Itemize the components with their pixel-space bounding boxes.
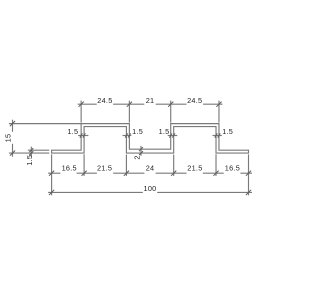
wall thickness dim line ridge1 right wall bbox=[123, 135, 132, 137]
tick left 15 dim lower bbox=[10, 151, 15, 156]
tick wall dim ridge2 left inner bbox=[172, 133, 175, 137]
svg-text:16.5: 16.5 bbox=[225, 164, 240, 173]
tick bottom dim 1 at x=126.42 bbox=[124, 171, 129, 176]
wall thickness dim line ridge2 left wall bbox=[168, 135, 178, 137]
bottom dimension line 1 segment 5 bbox=[203, 172, 224, 174]
svg-text:1.5: 1.5 bbox=[132, 127, 143, 136]
svg-text:24: 24 bbox=[146, 164, 155, 173]
extension line top dim at ridge1 outer-left x=81.14 bbox=[80, 101, 82, 123]
tick bottom dim 1 at x=248.5 bbox=[246, 171, 251, 176]
tick top dim at x=129.38 (ridge1 outer-right) bbox=[127, 102, 132, 107]
bottom dimension line 1 segment 4 bbox=[156, 172, 187, 174]
tick wall dim ridge1 right outer bbox=[125, 133, 128, 137]
bottom dimension line 1 segment 3 bbox=[113, 172, 144, 174]
svg-text:21: 21 bbox=[146, 96, 155, 105]
bottom dimension line 1 segment 6 bbox=[240, 172, 252, 174]
extension line top dim at ridge2 outer-right x=218.97 bbox=[218, 101, 220, 123]
left 15-dim extension line (ridge top) bbox=[9, 123, 81, 125]
svg-text:1.5: 1.5 bbox=[222, 127, 233, 136]
left 1.5 dimension line (vertical) bbox=[30, 147, 32, 157]
svg-text:21.5: 21.5 bbox=[97, 164, 112, 173]
bottom extension line at left end (shared) bbox=[51, 154, 53, 195]
tick bottom dim 2 right bbox=[246, 190, 251, 195]
tick left 1.5 dim upper bbox=[29, 148, 33, 152]
left 1.5-dim extension line (flange top) bbox=[28, 149, 50, 151]
bottom extension line at x=173.68 bbox=[173, 155, 175, 176]
left 15-dim extension line (flange bottom) bbox=[9, 152, 49, 154]
extension line top dim at ridge1 outer-right x=129.38 bbox=[128, 101, 130, 123]
svg-text:2: 2 bbox=[132, 155, 141, 159]
bottom dimension line 1 segment 1 bbox=[48, 172, 60, 174]
top dimension line segment 4 bbox=[203, 103, 222, 105]
tick bottom dim 1 at x=216.01 bbox=[213, 171, 218, 176]
bottom dimension line 1 segment 2 bbox=[77, 172, 97, 174]
svg-text:24.5: 24.5 bbox=[97, 96, 112, 105]
tick bottom dim 1 at x=173.68 bbox=[171, 171, 176, 176]
tick top dim at x=81.14 (ridge1 outer-left) bbox=[79, 102, 84, 107]
web thickness dim line (vertical) bbox=[140, 146, 142, 156]
svg-text:16.5: 16.5 bbox=[62, 164, 77, 173]
tick bottom dim 1 at x=84.09 bbox=[81, 171, 86, 176]
tick top dim at x=170.72 (ridge2 outer-left) bbox=[168, 102, 173, 107]
tick bottom dim 1 at x=51.6 bbox=[49, 171, 54, 176]
tick wall dim ridge1 right inner bbox=[128, 133, 131, 137]
bottom extension line at x=216.01 bbox=[215, 154, 217, 176]
tick top dim at x=218.97 (ridge2 outer-right) bbox=[216, 102, 221, 107]
bottom extension line at x=126.42 bbox=[125, 155, 127, 176]
tick wall dim ridge2 right inner bbox=[218, 133, 221, 137]
svg-text:24.5: 24.5 bbox=[187, 96, 202, 105]
top dimension line segment 2 bbox=[113, 103, 144, 105]
wall thickness dim line ridge2 right wall bbox=[213, 135, 222, 137]
tick web dim lower bbox=[139, 151, 143, 155]
profile outline (double-hat extrusion cross-section) bbox=[52, 124, 249, 153]
top dimension line segment 3 bbox=[156, 103, 187, 105]
svg-text:15: 15 bbox=[3, 134, 12, 143]
tick bottom dim 2 left bbox=[49, 190, 54, 195]
extension line top dim at ridge2 outer-left x=170.72 bbox=[170, 101, 172, 123]
tick left 1.5 dim lower bbox=[29, 151, 33, 155]
svg-text:1.5: 1.5 bbox=[67, 127, 78, 136]
top dimension line segment 1 bbox=[78, 103, 97, 105]
bottom dimension line 2 (overall 100) right segment bbox=[157, 191, 252, 193]
bottom extension line at x=84.09 bbox=[83, 154, 85, 176]
tick wall dim ridge1 left inner bbox=[83, 133, 86, 137]
svg-text:21.5: 21.5 bbox=[187, 164, 202, 173]
svg-text:1.5: 1.5 bbox=[159, 127, 170, 136]
left 15 dimension line lower segment bbox=[12, 144, 14, 157]
wall thickness dim line ridge1 left wall bbox=[78, 135, 88, 137]
tick web dim upper bbox=[139, 147, 143, 151]
svg-text:1.5: 1.5 bbox=[25, 155, 34, 166]
tick left 15 dim upper bbox=[10, 121, 15, 126]
left 15 dimension line upper segment bbox=[12, 120, 14, 132]
bottom extension line at right end (shared) bbox=[248, 154, 250, 195]
svg-text:100: 100 bbox=[144, 184, 157, 193]
tick wall dim ridge1 left outer bbox=[80, 133, 83, 137]
tick wall dim ridge2 left outer bbox=[169, 133, 172, 137]
tick wall dim ridge2 right outer bbox=[215, 133, 218, 137]
bottom dimension line 2 (overall 100) left segment bbox=[48, 191, 143, 193]
